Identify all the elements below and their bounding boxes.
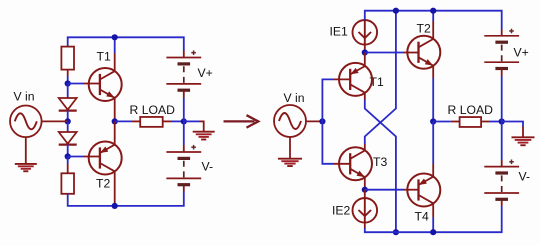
label T3 (right) — [373, 155, 387, 169]
wire top rail right circuit — [365, 11, 502, 36]
svg-text:R LOAD: R LOAD — [130, 103, 176, 117]
label R LOAD (left) — [130, 103, 176, 117]
svg-text:V-: V- — [202, 160, 214, 174]
label V- (right) — [519, 170, 531, 184]
wire D1 to mid node — [67, 111, 69, 122]
node B junction — [362, 187, 368, 193]
label IE2 — [332, 204, 351, 218]
node output junction (left) — [112, 118, 118, 124]
battery V+ (right) — [484, 29, 519, 69]
label V in (left) — [14, 90, 35, 104]
wire V+ to mid node — [183, 90, 185, 121]
node T4 collector at bottom rail — [430, 229, 436, 235]
node T2 collector at top rail — [430, 8, 436, 14]
label T1 (left) — [97, 50, 111, 64]
diode D1 — [59, 98, 77, 111]
svg-text:V in: V in — [284, 91, 305, 105]
wire base node to diode D1 — [67, 84, 69, 99]
wire T3 emitter lead — [364, 177, 366, 190]
battery V- (left) — [166, 145, 201, 185]
node diode midpoint — [65, 118, 71, 124]
svg-text:T2: T2 — [417, 21, 431, 35]
node battery midpoint (right) — [499, 118, 505, 124]
wire bottom rail right circuit — [365, 199, 502, 232]
wire T1 emitter lead — [364, 53, 366, 67]
node cross at top rail — [393, 8, 399, 14]
voltage source V in (left) — [10, 106, 42, 138]
transistor T2 (left PNP) — [89, 142, 122, 175]
wire R LOAD to battery node (right) — [481, 121, 502, 123]
label V+ (left) — [198, 66, 213, 80]
ground below V in (left) — [15, 164, 37, 171]
wire base node to R2 — [67, 157, 69, 174]
wire output node to T2 emitter — [114, 121, 116, 144]
wire mid node to ground (right) — [502, 122, 523, 138]
resistor R LOAD (left) — [140, 117, 163, 127]
svg-text:IE1: IE1 — [330, 25, 349, 39]
wire IE1 to node A — [364, 45, 366, 53]
label V+ (right) — [514, 46, 529, 60]
battery V+ (left) — [166, 50, 201, 90]
node T2 base junction — [65, 153, 71, 159]
wire T1 collector cross to bottom rail — [365, 93, 396, 232]
wire source to input node (right) — [306, 120, 322, 122]
wire T1 emitter to output node — [114, 98, 116, 122]
svg-text:T1: T1 — [97, 50, 111, 64]
svg-text:V+: V+ — [198, 66, 213, 80]
node battery midpoint (left) — [181, 118, 187, 124]
svg-text:T4: T4 — [415, 210, 429, 224]
current source IE2 — [353, 198, 378, 223]
node cross at bottom rail — [393, 229, 399, 235]
transistor T3 (right NPN) — [339, 147, 372, 180]
wire node B to IE2 — [364, 190, 366, 199]
voltage source V in (right) — [274, 105, 306, 137]
label V in (right) — [284, 91, 305, 105]
node A junction — [362, 49, 368, 55]
node T2 collector at bottom rail — [112, 203, 118, 209]
svg-text:T3: T3 — [373, 155, 387, 169]
ground mid rail (left) — [193, 132, 215, 140]
label T2 (right) — [417, 21, 431, 35]
wire mid node to V- (right) — [501, 122, 503, 167]
wire output node to R LOAD — [115, 120, 141, 122]
wire output node to R LOAD (right) — [433, 121, 459, 123]
wire T2 collector to top rail — [432, 11, 434, 39]
node T1 base junction — [65, 80, 71, 86]
wire T2 emitter to output node — [432, 66, 434, 122]
wire R2 to bottom rail — [68, 185, 184, 206]
wire mid node to diode D2 — [67, 121, 69, 132]
svg-text:V in: V in — [14, 90, 35, 104]
transistor T1 (right PNP) — [339, 63, 372, 96]
resistor R LOAD (right) — [460, 117, 482, 127]
ground mid rail (right) — [512, 137, 535, 145]
arrow between circuits — [224, 115, 259, 127]
current source IE1 — [353, 20, 378, 45]
svg-text:V+: V+ — [514, 46, 529, 60]
label R LOAD (right) — [448, 103, 494, 117]
wire input vertical to T1 base — [322, 79, 350, 121]
wire source to diode midpoint — [42, 120, 68, 122]
transistor T4 (right PNP) — [407, 174, 440, 207]
svg-text:T2: T2 — [96, 177, 110, 191]
wire node A to T2 base — [365, 52, 419, 54]
wire T2 base — [68, 156, 100, 158]
wire V+ to mid node (right) — [501, 69, 503, 122]
label IE1 — [330, 25, 349, 39]
label T4 (right) — [415, 210, 429, 224]
wire mid node to ground (left) — [184, 121, 204, 132]
wire input vertical to T3 base — [322, 121, 350, 163]
svg-text:V-: V- — [519, 170, 531, 184]
label T2 (left) — [96, 177, 110, 191]
wire R1 bottom to base node — [67, 70, 69, 84]
wire source ground stub (left) — [25, 137, 27, 164]
transistor T1 (left NPN) — [89, 68, 122, 101]
wire output node to T4 emitter — [432, 122, 434, 177]
wire R LOAD to battery node — [163, 120, 184, 122]
wire T4 collector to bottom rail — [432, 203, 434, 232]
transistor T2 (right NPN) — [407, 36, 440, 69]
wire T1 base — [68, 83, 100, 85]
resistor R2 — [61, 173, 74, 194]
wire T3 collector cross to top rail — [365, 11, 396, 151]
wire node B to T4 base — [365, 189, 419, 191]
wire source ground stub (right) — [289, 137, 291, 159]
battery V- (right) — [484, 160, 519, 200]
node input junction (right) — [319, 118, 325, 124]
label V- (left) — [202, 160, 214, 174]
node T1 collector at top rail — [112, 34, 118, 40]
node output junction (right) — [430, 118, 436, 124]
svg-text:R LOAD: R LOAD — [448, 103, 494, 117]
diode D2 — [59, 132, 77, 145]
resistor R1 — [61, 47, 74, 70]
wire top rail left circuit — [68, 37, 184, 57]
wire T1 collector (left) — [114, 37, 116, 71]
ground below V in (right) — [278, 159, 302, 166]
wire mid node to V- (left) — [183, 121, 185, 152]
svg-text:IE2: IE2 — [332, 204, 351, 218]
label T1 (right) — [370, 75, 384, 89]
wire T2 collector to bottom rail — [114, 171, 116, 206]
wire D2 to T2 base node — [67, 145, 69, 157]
